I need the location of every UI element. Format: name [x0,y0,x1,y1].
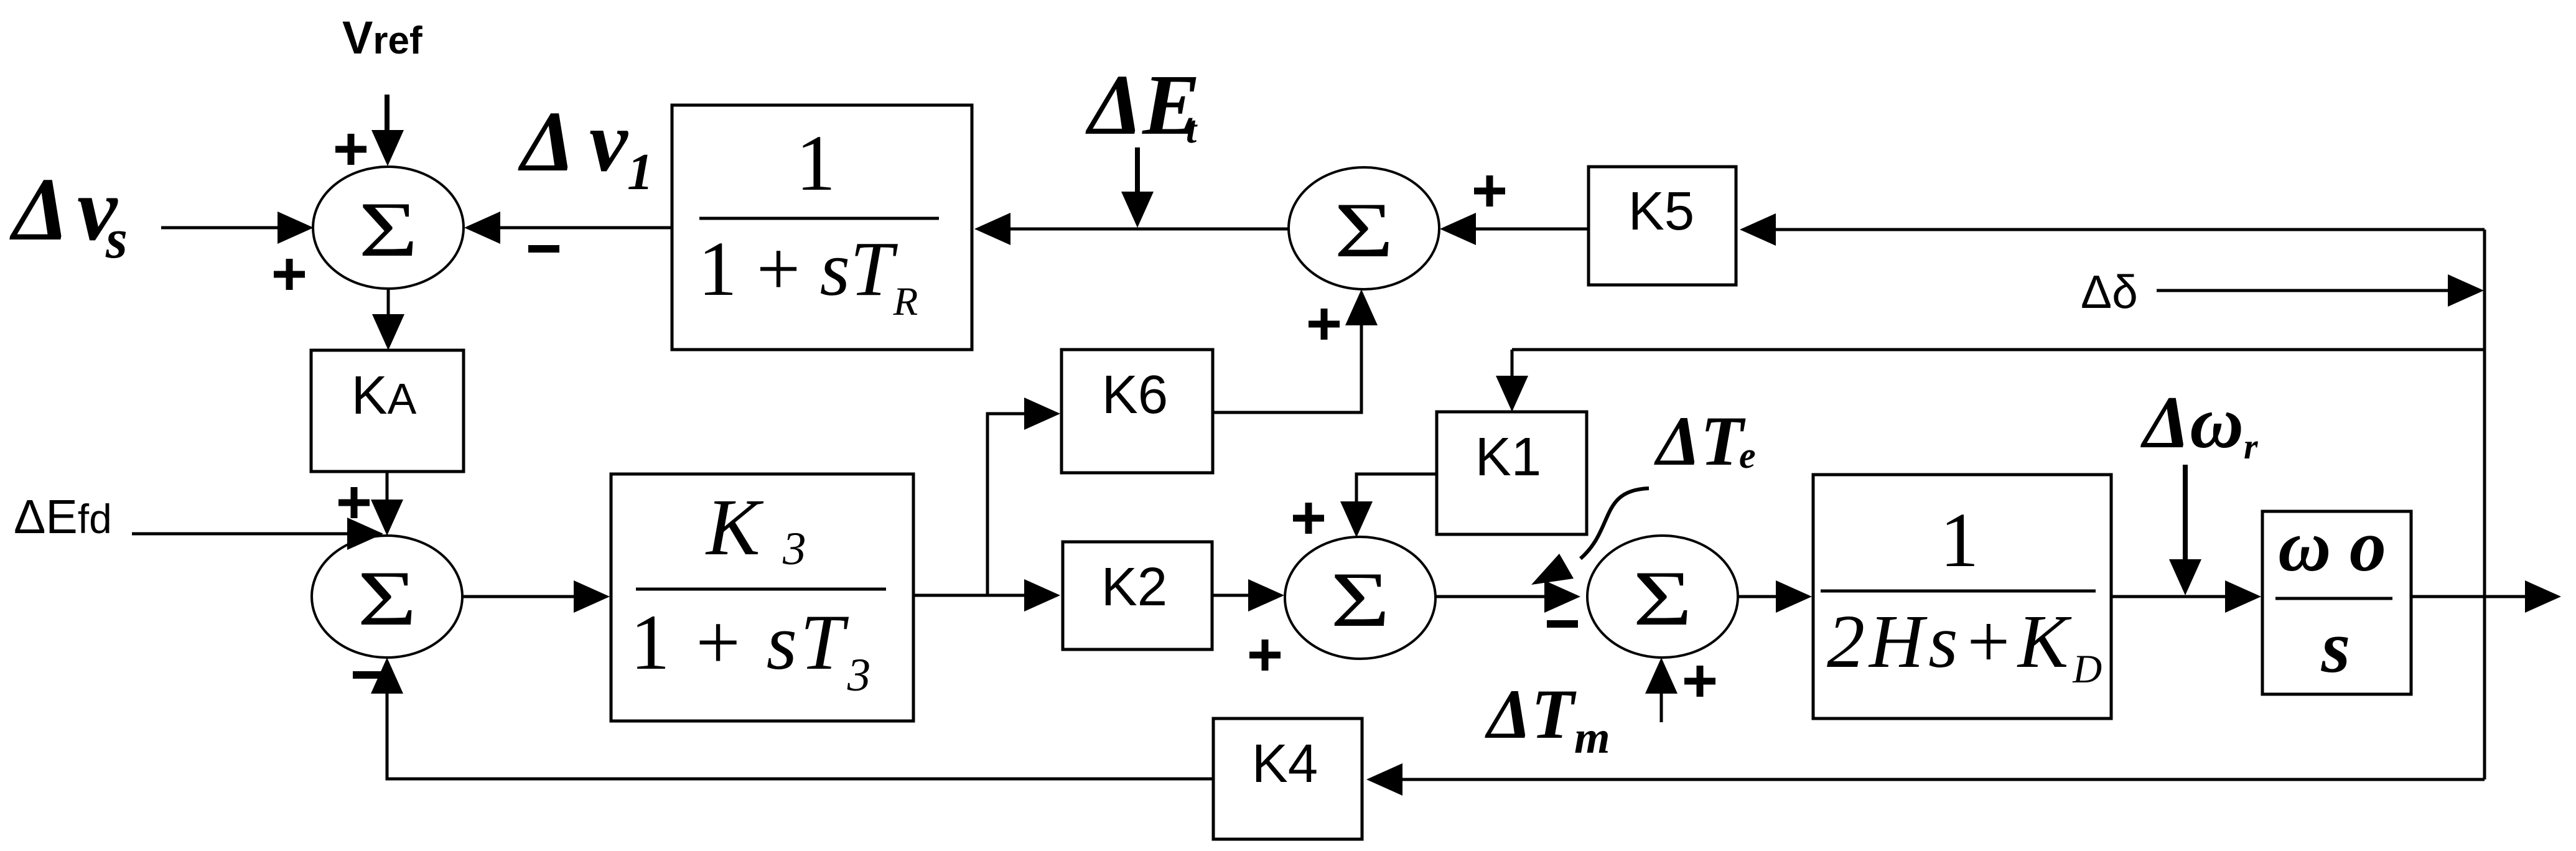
plus sign at Σ4 bottom input [1684,666,1715,697]
wire bottom feedback bus to K4 [1366,763,2485,796]
svg-text:K5: K5 [1628,181,1694,241]
wire Δv_s input to Σ1 [161,212,314,244]
wire K2 to Σ3 [1212,579,1284,612]
block U4 transfer function ωo/s (integrator) [2262,505,2411,694]
gain block KA (exciter gain) [311,350,464,472]
wire right bus to K5 [1740,213,2485,246]
svg-text:ΔT: ΔT [1654,402,1746,480]
block U1 transfer function 1/(1+sTR) (voltage transducer) [672,105,972,350]
wire ΔTe pointer (curved leader arrow) [1531,488,1649,585]
svg-text:e: e [1739,435,1756,476]
svg-text:Σ: Σ [357,555,416,642]
wire ΔTm input to Σ4 bottom [1645,658,1678,722]
wire Σ3 to Σ4 [1435,580,1580,613]
svg-text:K4: K4 [1252,733,1318,794]
wire Δδ to right bus [2157,274,2484,307]
minus sign at Σ5 bottom input [353,671,384,679]
svg-text:ΔEfd: ΔEfd [14,490,112,544]
svg-text:v: v [589,94,628,190]
svg-text:s: s [2321,605,2351,688]
wire 1/(2Hs+KD) to ωo/s [2111,580,2261,613]
svg-text:r: r [2244,426,2258,467]
node ΔEt (terminal voltage label) [1085,57,1200,153]
plus sign at Σ1 top input [335,134,366,165]
wire right feedback bus (vertical) [2483,230,2486,779]
wire Σ2 to block 1/(1+sTR) [974,213,1289,245]
svg-text:Δ: Δ [9,160,69,259]
wire KA to Σ5 [371,472,403,536]
minus sign at Σ4 left input [1547,620,1578,628]
svg-text:Δω: Δω [2140,381,2244,463]
gain block K1 [1437,412,1587,534]
svg-text:Δδ: Δδ [2081,266,2138,318]
plus sign at Σ1 left input [274,259,305,290]
wire branch node to K2 [987,579,1060,612]
svg-text:m: m [1574,712,1610,763]
node Δv1 (transducer output label) [518,94,653,201]
plus sign at Σ2 bottom input [1309,309,1340,340]
wire delta bus drop to K1 [1496,350,1528,412]
wire delta bus horizontal to K1 drop [1512,348,2485,351]
plus sign at Σ5 top input [338,487,370,518]
wire Δδ output to the right [2411,580,2561,613]
gain block K4 [1213,718,1362,839]
wire Vref input to Σ1 [371,95,404,166]
summing junction Σ4 (accelerating torque summer) [1587,536,1738,658]
svg-text:1 + sT3: 1 + sT3 [630,599,874,701]
wire K3 output to branch node [913,594,987,597]
node ΔEfd (field voltage label) [14,490,112,544]
block U3 transfer function 1/(2Hs+KD) (rotor swing) [1813,475,2111,718]
node ΔTe (electrical torque label) [1654,402,1756,480]
wire K1 to Σ3 top [1340,474,1437,537]
svg-text:Σ: Σ [1334,187,1393,274]
block U2 transfer function K3/(1+sT3) (field circuit) [611,474,913,721]
wire Σ5 to block K3 [463,580,610,613]
gain block K2 [1063,542,1212,649]
svg-text:K2: K2 [1101,557,1167,617]
svg-text:s: s [105,208,128,270]
node Δv_s (stabilizer input signal label) [9,160,128,270]
wire K6 to Σ2 bottom [1213,289,1378,412]
svg-text:Σ: Σ [1330,556,1389,643]
node Δωr (rotor speed deviation label) [2140,381,2258,467]
wire ΔEt input onto transducer line [1121,147,1154,228]
svg-text:t: t [1186,109,1198,151]
wire ΔEfd input to Σ5 [132,518,383,550]
svg-text:Δ: Δ [518,94,575,190]
node ΔTm (mechanical torque label) [1485,676,1610,763]
svg-text:2Hs+KD: 2Hs+KD [1827,600,2102,692]
minus sign at Σ1 right input [528,245,559,253]
svg-text:K1: K1 [1475,427,1541,487]
svg-text:1: 1 [1940,498,1979,584]
summing junction Σ1 (voltage comparator) [313,167,464,289]
svg-text:1 + sTR: 1 + sTR [698,226,918,324]
svg-text:KA: KA [352,365,417,425]
plus sign at Σ2 right input [1474,175,1505,207]
svg-text:Σ: Σ [358,186,418,273]
svg-text:K6: K6 [1102,365,1168,425]
gain block K5 [1589,167,1736,285]
wire Δv1 from block 1/(1+sTR) to Σ1 [464,212,672,244]
summing junction Σ2 (terminal voltage summer) [1289,167,1439,289]
svg-text:K: K [705,483,764,572]
wire Δωr input onto shaft line [2169,465,2201,595]
plus sign at Σ3 left input [1249,639,1281,671]
summing junction Σ3 (torque component summer) [1285,537,1435,659]
svg-text:3: 3 [782,523,806,575]
svg-text:Σ: Σ [1633,555,1692,642]
svg-text:Vref: Vref [342,12,422,63]
wire Σ1 to KA [372,289,404,350]
plus sign at Σ3 top input [1293,503,1324,534]
wire K4 to Σ5 bottom [371,658,1213,779]
summing junction Σ5 (field voltage summer) [312,536,462,658]
gain block K6 [1062,350,1213,473]
node Δδ (rotor angle label) [2081,266,2138,318]
svg-text:1: 1 [627,143,653,201]
wire K5 to Σ2 [1440,213,1589,245]
svg-text:ω o: ω o [2278,505,2386,587]
wire Σ4 to block 1/(2Hs+KD) [1737,580,1812,613]
wire branch node up to K6 [987,398,1060,595]
node Vref (reference voltage label) [342,12,422,63]
svg-text:ΔT: ΔT [1485,676,1577,753]
svg-text:ΔE: ΔE [1085,57,1200,153]
svg-text:1: 1 [796,119,836,207]
